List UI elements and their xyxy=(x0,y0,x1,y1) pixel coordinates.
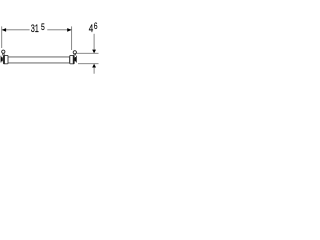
right arrowhead xyxy=(67,28,71,32)
right pin ball xyxy=(74,57,76,62)
svg-text:6: 6 xyxy=(94,21,98,32)
rod bottom line xyxy=(8,62,70,64)
svg-text:4: 4 xyxy=(89,23,94,35)
right stem xyxy=(74,54,75,55)
right fitting dark band xyxy=(73,56,74,64)
right fitting xyxy=(70,55,74,63)
vertical dimension upper line xyxy=(93,34,95,51)
left pin ball xyxy=(1,57,3,62)
left arrowhead xyxy=(2,28,6,32)
rod right end cap xyxy=(69,56,71,63)
svg-text:5: 5 xyxy=(41,22,45,33)
horizontal dimension line 31.5 left segment xyxy=(2,29,30,31)
left pin plate xyxy=(0,56,2,63)
left fitting dark band xyxy=(4,56,5,64)
left extension line xyxy=(1,26,3,48)
up arrowhead xyxy=(92,64,96,68)
left stem xyxy=(3,54,4,56)
lower extension line 4.6 xyxy=(78,63,99,65)
down arrowhead xyxy=(92,50,96,54)
right extension line xyxy=(71,26,73,50)
vertical dimension lower tail xyxy=(93,68,95,74)
svg-text:31: 31 xyxy=(31,23,39,35)
horizontal dimension line 31.5 right segment xyxy=(47,29,71,31)
upper extension line 4.6 xyxy=(77,52,99,54)
right circle xyxy=(73,51,76,54)
right pin plate xyxy=(75,56,78,63)
left fitting xyxy=(3,55,8,63)
left circle xyxy=(2,50,5,53)
rod top line xyxy=(8,56,70,58)
